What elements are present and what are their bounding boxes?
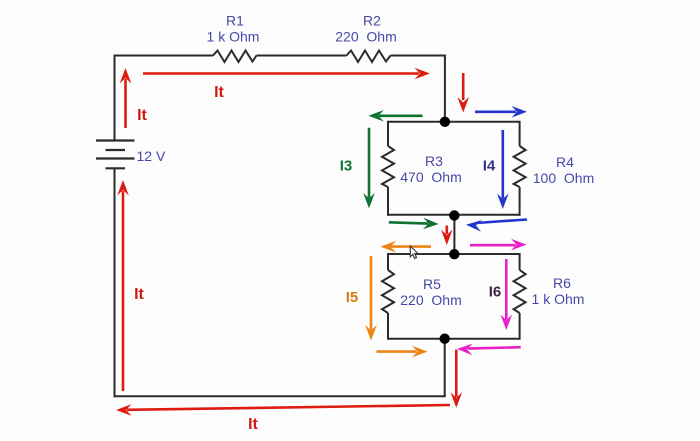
node junction R5R6 top	[449, 249, 459, 259]
wire top-left vertical (battery + to top rail)	[114, 56, 116, 141]
wire connector between parallel sections	[453, 215, 455, 254]
current arrow I4 down	[497, 130, 509, 209]
svg-text:It: It	[137, 107, 147, 124]
wire top rail left segment	[114, 55, 214, 57]
svg-text:It: It	[214, 84, 224, 101]
current arrow I6 down	[501, 259, 513, 330]
wire R6 branch bottom	[519, 313, 521, 340]
wire top rail middle segment	[257, 55, 347, 57]
resistor R5	[382, 270, 394, 313]
current arrow It left lower (up)	[117, 180, 129, 391]
current arrow red down between sections	[441, 226, 453, 246]
node junction R5R6 bottom	[440, 334, 450, 344]
wire left vertical (battery - to bottom rail)	[114, 169, 116, 398]
wire R5 branch bottom	[387, 313, 389, 340]
wire bottom connector down	[444, 339, 446, 397]
wire R4 branch top	[519, 121, 521, 146]
wire R3 branch bottom	[387, 187, 389, 216]
current arrow magenta right (into R6 top)	[470, 239, 527, 251]
current arrow orange left (into R5 top)	[381, 241, 432, 253]
svg-text:I4: I4	[483, 158, 496, 175]
current arrow green right (out of R3 bottom)	[389, 218, 439, 230]
svg-text:220 Ohm: 220 Ohm	[335, 29, 396, 45]
svg-text:1 k Ohm: 1 k Ohm	[207, 29, 260, 45]
svg-text:R3: R3	[425, 153, 443, 169]
resistor R6	[514, 270, 526, 313]
svg-text:470 Ohm: 470 Ohm	[400, 169, 461, 185]
wire R3R4 bottom rail	[388, 214, 520, 216]
svg-text:220 Ohm: 220 Ohm	[400, 292, 461, 308]
current arrow It top horizontal	[143, 68, 430, 80]
current arrow blue right (into R4 top)	[475, 106, 527, 118]
resistor R3	[382, 146, 394, 187]
wire R5R6 top rail	[388, 253, 520, 255]
current arrow It bottom (left)	[116, 404, 450, 416]
battery B1 12V	[96, 141, 135, 169]
current arrow red down into top node	[457, 73, 469, 113]
current arrow red down at bottom node	[451, 350, 463, 408]
node junction top (R3R4 top)	[440, 117, 450, 127]
wire R5R6 bottom rail	[388, 338, 520, 340]
svg-text:I6: I6	[489, 284, 502, 301]
current arrow blue left (out of R4 bottom)	[466, 219, 527, 232]
svg-text:It: It	[134, 286, 144, 303]
wire R4 branch bottom	[519, 187, 521, 216]
wire R3R4 top rail	[388, 121, 520, 123]
mouse cursor	[410, 246, 418, 259]
wire top rail right segment + right drop	[391, 56, 445, 122]
resistor R2	[347, 51, 391, 63]
svg-text:1 k Ohm: 1 k Ohm	[532, 291, 585, 307]
svg-text:R4: R4	[556, 154, 574, 170]
current arrow I5 down	[365, 256, 377, 341]
svg-text:I5: I5	[346, 289, 359, 306]
svg-text:R1: R1	[226, 13, 244, 29]
node junction R3R4 bottom	[449, 210, 459, 220]
current arrow magenta left (out of R6 bottom)	[457, 343, 521, 355]
svg-text:R2: R2	[363, 13, 381, 29]
svg-text:100 Ohm: 100 Ohm	[533, 170, 594, 186]
current arrow I3 down	[363, 128, 375, 209]
resistor R1	[213, 51, 257, 63]
wire bottom rail	[114, 395, 446, 397]
wire R5 branch top	[387, 253, 389, 270]
current arrow It left upper (up)	[120, 68, 132, 128]
svg-text:R5: R5	[423, 276, 441, 292]
svg-text:It: It	[248, 416, 258, 433]
current arrow orange right (out of R5 bottom)	[377, 346, 428, 358]
svg-text:12 V: 12 V	[137, 148, 166, 164]
resistor R4	[514, 146, 526, 187]
wire R3 branch top	[387, 121, 389, 146]
wire R6 branch top	[519, 253, 521, 270]
svg-text:R6: R6	[553, 275, 571, 291]
current arrow green left (into R3 top)	[368, 110, 422, 122]
svg-text:I3: I3	[340, 158, 353, 175]
